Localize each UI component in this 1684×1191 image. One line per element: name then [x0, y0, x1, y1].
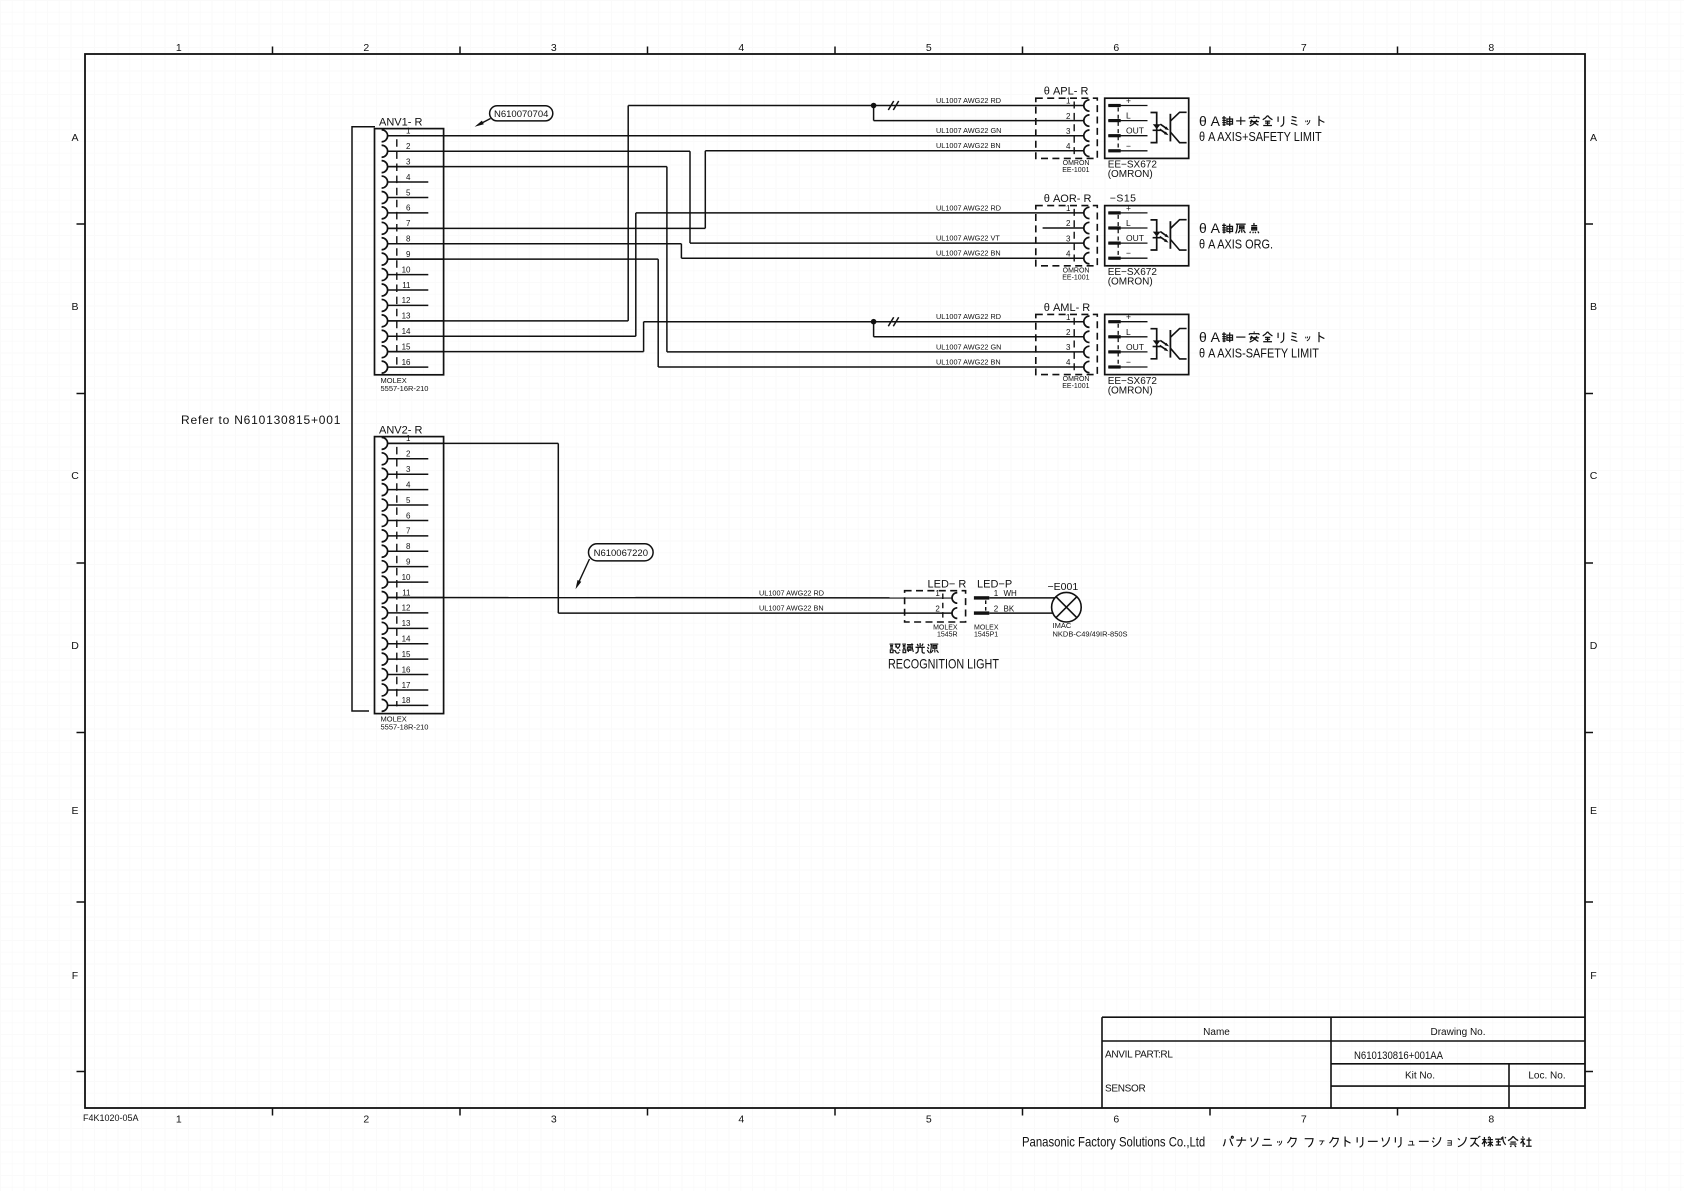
svg-text:E: E	[1590, 805, 1597, 817]
svg-text:B: B	[71, 301, 78, 313]
svg-text:16: 16	[402, 665, 411, 674]
svg-text:8: 8	[406, 542, 411, 551]
svg-text:18: 18	[402, 696, 411, 705]
svg-text:1: 1	[406, 127, 411, 136]
svg-text:8: 8	[406, 235, 411, 244]
svg-text:N610070704: N610070704	[494, 109, 548, 120]
svg-text:6: 6	[406, 511, 411, 520]
svg-text:5557-16R-210: 5557-16R-210	[381, 384, 429, 393]
svg-text:(OMRON): (OMRON)	[1108, 277, 1153, 288]
svg-text:OMRON: OMRON	[1063, 376, 1090, 383]
svg-text:θ A: θ A	[1199, 329, 1221, 345]
svg-text:(OMRON): (OMRON)	[1108, 169, 1153, 180]
svg-text:UL1007 AWG22 GN: UL1007 AWG22 GN	[936, 126, 1001, 135]
svg-text:WH: WH	[1004, 589, 1018, 598]
svg-text:E: E	[71, 805, 78, 817]
svg-text:LED− R: LED− R	[928, 579, 967, 591]
svg-text:11: 11	[402, 281, 411, 290]
svg-text:4: 4	[406, 173, 411, 182]
svg-text:F: F	[1590, 970, 1596, 982]
svg-text:7: 7	[406, 527, 411, 536]
svg-text:4: 4	[406, 480, 411, 489]
svg-text:EE-1001: EE-1001	[1062, 274, 1089, 281]
svg-text:Name: Name	[1203, 1027, 1230, 1038]
svg-text:D: D	[1590, 640, 1598, 652]
svg-text:A: A	[71, 132, 78, 144]
svg-text:1: 1	[1066, 313, 1071, 322]
svg-text:UL1007 AWG22 RD: UL1007 AWG22 RD	[936, 96, 1001, 105]
svg-text:2: 2	[363, 1114, 369, 1126]
svg-text:2: 2	[406, 450, 411, 459]
svg-text:A: A	[1590, 132, 1597, 144]
svg-text:7: 7	[1301, 42, 1307, 54]
svg-text:ANV2- R: ANV2- R	[379, 425, 422, 437]
svg-text:1: 1	[176, 42, 182, 54]
svg-text:7: 7	[406, 219, 411, 228]
svg-text:6: 6	[406, 204, 411, 213]
svg-text:UL1007 AWG22 RD: UL1007 AWG22 RD	[759, 588, 824, 597]
svg-text:−S15: −S15	[1110, 193, 1137, 205]
svg-text:10: 10	[402, 573, 411, 582]
svg-text:D: D	[71, 640, 79, 652]
svg-text:N610130816+001AA: N610130816+001AA	[1354, 1050, 1443, 1062]
svg-text:OUT: OUT	[1126, 342, 1144, 352]
svg-text:2: 2	[1066, 328, 1071, 337]
svg-text:13: 13	[402, 312, 411, 321]
svg-text:Refer to N610130815+001: Refer to N610130815+001	[181, 413, 341, 427]
svg-text:BK: BK	[1004, 604, 1015, 613]
svg-text:Drawing No.: Drawing No.	[1430, 1027, 1485, 1038]
svg-text:−: −	[1126, 357, 1131, 367]
svg-text:MOLEX: MOLEX	[974, 624, 999, 631]
svg-text:OMRON: OMRON	[1063, 160, 1090, 167]
svg-text:5: 5	[406, 496, 411, 505]
svg-text:UL1007 AWG22 BN: UL1007 AWG22 BN	[936, 357, 1001, 366]
svg-text:2: 2	[1066, 112, 1071, 121]
svg-text:1: 1	[1066, 204, 1071, 213]
svg-text:4: 4	[1066, 249, 1071, 258]
svg-text:2: 2	[994, 604, 999, 613]
svg-text:OMRON: OMRON	[1063, 267, 1090, 274]
svg-text:Loc. No.: Loc. No.	[1528, 1071, 1565, 1082]
svg-text:6: 6	[1113, 1114, 1119, 1126]
svg-text:OUT: OUT	[1126, 126, 1144, 136]
svg-text:8: 8	[1488, 42, 1494, 54]
svg-text:OUT: OUT	[1126, 233, 1144, 243]
svg-text:17: 17	[402, 681, 411, 690]
svg-text:F: F	[72, 970, 78, 982]
svg-text:(OMRON): (OMRON)	[1108, 385, 1153, 396]
svg-text:+: +	[1126, 312, 1131, 322]
svg-text:11: 11	[402, 588, 411, 597]
svg-text:5: 5	[926, 42, 932, 54]
svg-text:3: 3	[406, 465, 411, 474]
svg-text:θ A: θ A	[1199, 113, 1221, 129]
svg-text:4: 4	[738, 1114, 744, 1126]
svg-text:C: C	[1590, 470, 1598, 482]
svg-text:−: −	[1126, 248, 1131, 258]
svg-text:θ A: θ A	[1199, 220, 1221, 236]
svg-text:UL1007 AWG22 VT: UL1007 AWG22 VT	[936, 234, 1000, 243]
svg-text:4: 4	[1066, 358, 1071, 367]
svg-text:+: +	[1126, 203, 1131, 213]
svg-text:3: 3	[406, 157, 411, 166]
svg-text:−: −	[1126, 141, 1131, 151]
svg-text:θ A AXIS ORG.: θ A AXIS ORG.	[1199, 237, 1273, 252]
svg-text:2: 2	[363, 42, 369, 54]
svg-text:12: 12	[402, 296, 411, 305]
svg-text:16: 16	[402, 358, 411, 367]
svg-text:+: +	[1126, 96, 1131, 106]
svg-text:5557-18R-210: 5557-18R-210	[381, 723, 429, 732]
svg-text:1: 1	[1066, 97, 1071, 106]
svg-text:1: 1	[935, 589, 940, 598]
svg-text:L: L	[1126, 111, 1131, 121]
svg-text:1545P1: 1545P1	[974, 631, 998, 638]
svg-text:−E001: −E001	[1048, 581, 1079, 593]
svg-text:1: 1	[176, 1114, 182, 1126]
svg-text:UL1007 AWG22 BN: UL1007 AWG22 BN	[936, 249, 1001, 258]
svg-text:L: L	[1126, 218, 1131, 228]
svg-text:14: 14	[402, 635, 411, 644]
svg-text:3: 3	[551, 1114, 557, 1126]
svg-text:4: 4	[738, 42, 744, 54]
svg-text:θ A AXIS+SAFETY LIMIT: θ A AXIS+SAFETY LIMIT	[1199, 129, 1322, 144]
svg-text:UL1007 AWG22 RD: UL1007 AWG22 RD	[936, 312, 1001, 321]
svg-text:13: 13	[402, 619, 411, 628]
svg-text:3: 3	[1066, 127, 1071, 136]
svg-text:B: B	[1590, 301, 1597, 313]
svg-text:1: 1	[994, 589, 999, 598]
svg-text:UL1007 AWG22 BN: UL1007 AWG22 BN	[936, 141, 1001, 150]
svg-text:L: L	[1126, 327, 1131, 337]
svg-text:1545R: 1545R	[937, 631, 958, 638]
svg-text:5: 5	[926, 1114, 932, 1126]
svg-text:9: 9	[406, 250, 411, 259]
svg-text:4: 4	[1066, 142, 1071, 151]
svg-text:F4K1020-05A: F4K1020-05A	[83, 1113, 139, 1123]
svg-text:MOLEX: MOLEX	[933, 624, 958, 631]
svg-text:Kit No.: Kit No.	[1405, 1071, 1435, 1082]
svg-text:EE-1001: EE-1001	[1062, 167, 1089, 174]
svg-text:9: 9	[406, 557, 411, 566]
svg-text:1: 1	[406, 434, 411, 443]
svg-text:ANVIL PART:RL: ANVIL PART:RL	[1105, 1050, 1173, 1061]
svg-text:15: 15	[402, 650, 411, 659]
svg-text:NKDB-C49/49IR-850S: NKDB-C49/49IR-850S	[1053, 630, 1128, 639]
svg-text:3: 3	[551, 42, 557, 54]
svg-text:UL1007 AWG22 RD: UL1007 AWG22 RD	[936, 203, 1001, 212]
svg-text:2: 2	[406, 142, 411, 151]
svg-text:SENSOR: SENSOR	[1105, 1084, 1146, 1095]
svg-text:15: 15	[402, 342, 411, 351]
svg-text:8: 8	[1488, 1114, 1494, 1126]
svg-text:UL1007 AWG22 GN: UL1007 AWG22 GN	[936, 342, 1001, 351]
svg-text:3: 3	[1066, 234, 1071, 243]
svg-text:3: 3	[1066, 343, 1071, 352]
svg-text:12: 12	[402, 604, 411, 613]
svg-text:Panasonic Factory Solutions Co: Panasonic Factory Solutions Co.,Ltd	[1022, 1135, 1205, 1150]
svg-text:6: 6	[1113, 42, 1119, 54]
svg-text:2: 2	[935, 604, 940, 613]
svg-text:ANV1- R: ANV1- R	[379, 117, 422, 129]
svg-text:14: 14	[402, 327, 411, 336]
svg-text:5: 5	[406, 188, 411, 197]
svg-text:RECOGNITION LIGHT: RECOGNITION LIGHT	[888, 656, 999, 671]
svg-text:10: 10	[402, 265, 411, 274]
svg-text:θ A AXIS-SAFETY LIMIT: θ A AXIS-SAFETY LIMIT	[1199, 345, 1320, 360]
svg-text:2: 2	[1066, 219, 1071, 228]
svg-text:UL1007 AWG22 BN: UL1007 AWG22 BN	[759, 604, 824, 613]
svg-text:C: C	[71, 470, 79, 482]
svg-text:N610067220: N610067220	[594, 548, 648, 559]
svg-text:7: 7	[1301, 1114, 1307, 1126]
svg-text:EE-1001: EE-1001	[1062, 383, 1089, 390]
